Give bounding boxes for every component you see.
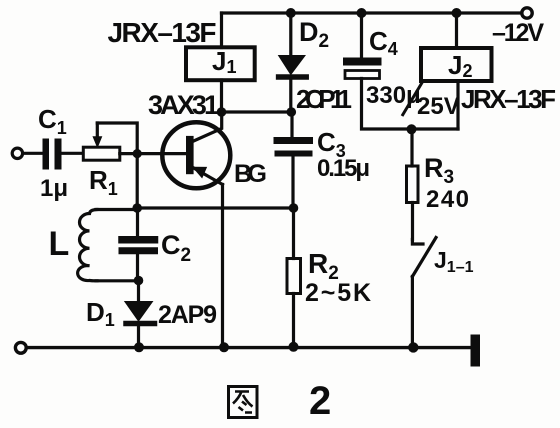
svg-text:0.15μ: 0.15μ	[317, 155, 370, 182]
svg-text:25V: 25V	[417, 93, 460, 120]
transistor BG body circle	[162, 122, 230, 188]
wire: J2 bottom lead	[456, 81, 459, 129]
svg-text:2CP11: 2CP11	[296, 84, 352, 114]
svg-text:J2: J2	[448, 50, 472, 81]
svg-text:J1: J1	[212, 46, 236, 77]
diode D1	[125, 302, 153, 322]
wire: D2 anode lead	[289, 80, 292, 113]
node: junction C4/R3/J2	[407, 124, 417, 134]
node: junction switch/ground rail	[408, 342, 418, 352]
R1 wiper arrow	[93, 137, 101, 147]
resistor R2	[287, 259, 301, 294]
node: junction J1/collector	[217, 107, 227, 117]
terminal: input ground open circle	[15, 342, 26, 353]
wire: switch bottom lead	[411, 277, 414, 348]
resistor R3	[407, 166, 419, 203]
wire: C4 bottom lead and link to J2	[362, 79, 459, 130]
svg-text:240: 240	[426, 186, 469, 213]
wire: R3 top lead	[410, 129, 413, 166]
node: junction emitter/ground rail	[219, 342, 229, 352]
wire: R2 bottom lead	[292, 294, 295, 348]
capacitor C4 electrolytic	[347, 58, 378, 66]
capacitor C3	[277, 137, 310, 144]
wire: R2 top lead	[292, 208, 295, 259]
node: rail junction above D2	[286, 8, 296, 18]
svg-text:D2: D2	[299, 17, 329, 52]
svg-text:–12V: –12V	[492, 19, 544, 47]
svg-text:L: L	[49, 225, 70, 263]
svg-text:JRX–13F: JRX–13F	[108, 17, 217, 48]
wire: R1 to base	[120, 152, 185, 155]
wire: R3 bottom lead	[411, 203, 414, 240]
svg-text:C4: C4	[369, 26, 398, 59]
inductor L	[78, 210, 97, 281]
wire: top supply rail	[222, 11, 523, 14]
wire: C1 to R1	[62, 152, 84, 155]
wire: D2 cathode lead	[289, 13, 292, 55]
transistor BG emitter arrow	[193, 167, 206, 177]
svg-text:D1: D1	[86, 297, 115, 330]
node: junction D2/C3	[287, 107, 297, 117]
switch J1-1 blade	[412, 238, 436, 277]
terminal: ground end bar	[471, 335, 481, 367]
transistor BG base bar	[186, 136, 194, 174]
wire: bottom ground rail	[27, 346, 471, 349]
relay coil J1 box	[186, 47, 255, 80]
svg-text:1μ: 1μ	[40, 175, 68, 202]
node: junction L/C2/D1	[134, 276, 144, 286]
node: junction C3/R2	[289, 203, 299, 213]
svg-text:R1: R1	[89, 165, 118, 199]
svg-text:2: 2	[309, 379, 331, 423]
svg-text:C1: C1	[38, 104, 67, 138]
svg-text:J1–1: J1–1	[434, 247, 474, 276]
wire: coil bottom to node	[96, 279, 139, 282]
wire: J1 top lead	[220, 13, 223, 48]
diode D2	[279, 56, 305, 75]
wire: D1 anode lead	[137, 327, 140, 348]
wire: input to C1	[23, 152, 43, 155]
node: junction tank/base	[132, 203, 142, 213]
capacitor C2	[122, 236, 155, 244]
wire: tank top to coil	[96, 208, 137, 211]
terminal: signal input open circle	[12, 148, 22, 158]
caption: hanzi TU (figure) drawn	[229, 387, 258, 418]
node: rail junction above J2	[452, 8, 462, 18]
wire: J1 bottom lead	[220, 80, 223, 112]
wire: J2 top lead	[455, 13, 458, 48]
svg-text:330μ: 330μ	[366, 82, 421, 109]
node: rail junction above C4	[357, 8, 367, 18]
wire: C2 top lead	[136, 210, 139, 237]
transistor BG emitter	[192, 167, 223, 185]
capacitor C1	[43, 139, 50, 170]
terminal: -12V open circle	[522, 8, 532, 18]
wire: D1 cathode lead	[137, 281, 140, 302]
resistor R1	[83, 147, 120, 160]
node: junction R2/ground rail	[289, 342, 299, 352]
transistor BG collector	[193, 112, 222, 142]
wire: C4 top lead	[360, 13, 363, 58]
wire: emitter to ground rail	[221, 185, 224, 348]
relay coil J2 box	[421, 48, 492, 81]
svg-text:2~5K: 2~5K	[305, 279, 371, 307]
wire: C3 top lead	[290, 112, 293, 137]
wire: node down to tank	[136, 154, 139, 208]
svg-text:C2: C2	[161, 230, 191, 266]
node: junction R1/base	[133, 149, 142, 158]
svg-text:R3: R3	[424, 153, 454, 188]
label fraction slash	[402, 81, 423, 116]
svg-text:2AP9: 2AP9	[158, 301, 217, 329]
switch J1-1 contact	[412, 240, 423, 245]
svg-text:3AX31: 3AX31	[148, 90, 219, 120]
wire: C3 bottom lead	[291, 157, 294, 208]
wire: base bias node horizontal	[137, 206, 293, 209]
wire: C2 bottom lead	[136, 255, 139, 281]
node: junction D1/ground rail	[134, 342, 144, 352]
svg-text:JRX–13F: JRX–13F	[461, 84, 556, 114]
svg-text:BG: BG	[234, 160, 267, 188]
wire: R1 wiper bracket	[97, 123, 137, 154]
wire: collector node horizontal	[222, 110, 292, 113]
